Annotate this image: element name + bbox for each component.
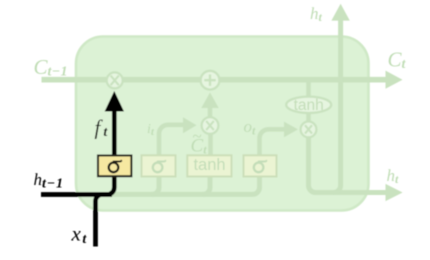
arrowhead i_t into multiply <box>183 117 197 133</box>
arrowhead into add <box>201 93 218 109</box>
wire: C line down through tanh to output multiply <box>306 82 311 121</box>
arrowhead forget gate into multiply (black) <box>105 91 124 112</box>
wire: branch to candidate tanh <box>203 176 210 194</box>
wire: x_t input line (black) <box>96 195 113 247</box>
op: add circle (faded) <box>201 71 220 90</box>
gate box: candidate tanh (faded) <box>187 155 231 176</box>
gate box: forget sigma (highlighted yellow) <box>98 156 131 177</box>
wire: tanh candidate up to multiply <box>208 130 213 156</box>
svg-text:xt: xt <box>71 222 88 248</box>
arrowhead C_t output <box>386 71 403 89</box>
wire: branch to input sigma <box>152 176 159 194</box>
op: tanh oval (faded) <box>286 97 331 113</box>
svg-text:ht−1: ht−1 <box>34 170 64 192</box>
wire: output multiply down and right to h_t outputs <box>309 138 387 193</box>
wire: cell state line C (faded) <box>42 77 387 83</box>
op: output multiply circle (faded) <box>301 121 317 137</box>
svg-text:tanh: tanh <box>193 156 225 174</box>
gate box: input sigma (faded) <box>142 155 176 176</box>
gate box: output sigma (faded) <box>244 155 277 176</box>
svg-text:Ct−1: Ct−1 <box>34 55 68 80</box>
wire: input sigma up to i_t multiply <box>159 125 184 156</box>
wire: h_{t-1} input line (black) <box>41 104 114 195</box>
svg-text:ht: ht <box>310 4 323 24</box>
svg-text:tanh: tanh <box>294 97 324 114</box>
wire: multiply up to add (i_t path) <box>208 105 213 117</box>
svg-text:ht: ht <box>387 166 400 186</box>
svg-text:Ct: Ct <box>388 48 407 73</box>
arrowhead h_t right output <box>386 184 403 201</box>
wire: internal h line (faded) <box>112 176 260 194</box>
arrowhead h_t top output <box>331 4 349 21</box>
cell body rounded rectangle <box>76 37 369 211</box>
arrowhead o_t into output multiply <box>284 122 298 138</box>
op: input multiply circle (faded) <box>202 117 219 134</box>
wire: branch up to h_t top output <box>334 18 341 193</box>
op: forget gate multiply circle (faded) <box>107 72 123 88</box>
wire: output sigma up and right to output multiply <box>260 129 286 155</box>
